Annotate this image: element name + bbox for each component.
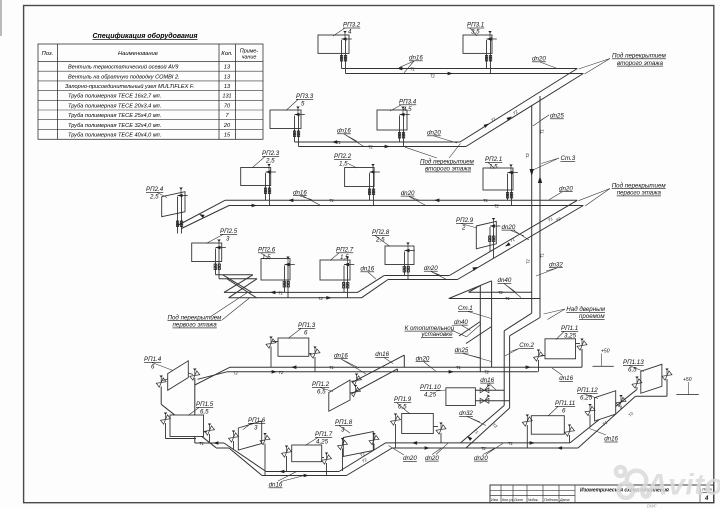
leader RP2.1: [488, 163, 495, 169]
leader RP3.3: [286, 100, 298, 111]
svg-text:Т2: Т2: [279, 370, 285, 375]
svg-text:Ст.2: Ст.2: [519, 342, 534, 349]
svg-text:второго этажа: второго этажа: [425, 166, 472, 173]
wire T2 floor3 top run: [346, 73, 584, 75]
wire T2 row3 left diagonal: [182, 206, 230, 229]
svg-text:2,5: 2,5: [375, 237, 385, 244]
radiator RP3.3: [270, 107, 305, 147]
svg-text:dn16: dn16: [604, 436, 618, 443]
svg-text:Лист: Лист: [513, 498, 523, 502]
elevation mark +50 west: [593, 349, 614, 367]
wire T1 east ascend diagonal: [570, 389, 637, 443]
svg-text:dn16: dn16: [375, 351, 389, 358]
leader RP2.4: [157, 193, 167, 198]
wire T1 floor2 lower run: [224, 291, 358, 293]
wire T2 floor3 second run: [299, 146, 467, 148]
svg-text:Кол.: Кол.: [221, 51, 232, 57]
leader dn16 RP1.2 return: [384, 358, 393, 364]
svg-text:Под перекрытием: Под перекрытием: [612, 182, 667, 189]
arrow T2 bottom run: [304, 474, 309, 478]
svg-text:РП1.13: РП1.13: [623, 359, 644, 366]
svg-text:dn32: dn32: [459, 410, 473, 417]
svg-text:3,25: 3,25: [564, 333, 577, 340]
svg-text:Т1: Т1: [199, 441, 204, 446]
svg-text:Дата: Дата: [559, 498, 569, 502]
wire T1 floor3 second run: [295, 141, 461, 143]
leader RP1.13: [629, 366, 644, 372]
radiator RP1.1: [533, 339, 587, 372]
svg-text:РП2.5: РП2.5: [220, 228, 238, 235]
wire row5 left vertical to row6: [194, 378, 196, 443]
svg-text:РП3.1: РП3.1: [467, 22, 484, 29]
wire triangle T2 branch diagonal: [469, 286, 481, 293]
svg-text:Т2: Т2: [498, 290, 504, 295]
svg-text:Т1: Т1: [336, 140, 341, 145]
wire T2 dn40 link run: [469, 291, 532, 293]
svg-text:первого этажа: первого этажа: [617, 190, 662, 197]
wire T1 floor2 upper run: [225, 199, 577, 201]
svg-text:чание: чание: [242, 55, 257, 61]
radiator RP2.2: [345, 164, 380, 206]
svg-text:dn16: dn16: [480, 377, 494, 384]
svg-text:dn25: dn25: [455, 347, 469, 354]
radiator RP1.9: [390, 414, 446, 449]
leader RP2.5: [206, 235, 223, 244]
leader RP1.8: [339, 426, 350, 434]
svg-text:6,5: 6,5: [200, 409, 209, 416]
svg-text:dn40: dn40: [498, 277, 512, 284]
arrow T2 row6 east: [425, 446, 430, 450]
leader RP2.3: [252, 157, 265, 169]
wire T2 floor1 lower west run: [216, 447, 229, 449]
leader RP1.7: [305, 438, 318, 446]
wire RP1.4 left connection vertical: [160, 387, 162, 405]
svg-text:РП1.8: РП1.8: [335, 419, 353, 426]
svg-text:4,5: 4,5: [403, 106, 412, 113]
svg-text:2,5: 2,5: [149, 194, 159, 201]
wire T1 RP2.8 run: [384, 275, 449, 277]
svg-text:установке: установке: [420, 331, 453, 338]
leader dn16 row1: [399, 61, 414, 73]
radiator RP2.7: [320, 257, 354, 298]
arrow up riser St3 T1: [538, 176, 542, 183]
svg-text:РП1.3: РП1.3: [298, 322, 316, 329]
svg-text:Спецификация оборудования: Спецификация оборудования: [92, 32, 197, 40]
arrow T1 row1: [397, 67, 402, 71]
svg-text:РП3.3: РП3.3: [296, 93, 314, 100]
svg-text:Т2: Т2: [494, 203, 500, 208]
svg-text:РП1.4: РП1.4: [144, 356, 162, 363]
leader St1: [468, 312, 491, 319]
svg-text:dn20: dn20: [401, 190, 415, 197]
svg-text:РП2.2: РП2.2: [334, 153, 352, 160]
radiator RP2.8: [385, 243, 415, 280]
leader dn20 row2: [434, 136, 457, 143]
svg-text:Подпись: Подпись: [544, 498, 558, 502]
svg-text:3: 3: [226, 236, 230, 243]
svg-text:№док.: №док.: [528, 498, 539, 502]
svg-text:1,5: 1,5: [262, 254, 271, 261]
svg-text:Т2: Т2: [368, 145, 374, 150]
leader dn16 RP1.10: [489, 384, 496, 390]
wire T2 RP2.8 run left drop: [362, 280, 389, 298]
arrow T1 row4: [270, 291, 275, 295]
svg-text:3: 3: [254, 425, 258, 432]
wire RP1.2 supply stub vertical: [403, 355, 405, 367]
svg-text:dn20: dn20: [474, 455, 488, 462]
riser St3 T2: [531, 105, 533, 313]
radiator RP1.13 tilted: [632, 364, 672, 393]
leader note door: [544, 309, 566, 320]
leader note floor2 #2: [405, 144, 461, 159]
svg-text:Т1: Т1: [505, 296, 510, 301]
svg-text:dn16: dn16: [360, 266, 374, 273]
svg-text:dn20: dn20: [416, 355, 430, 362]
wire T1 ascend diagonal from bottom run: [339, 443, 386, 472]
wire T2 diagonal row3 to RP2.8 run: [458, 206, 584, 280]
svg-text:РП1.7: РП1.7: [315, 431, 333, 438]
svg-text:15: 15: [224, 133, 231, 139]
wire T1 bottom run: [266, 471, 339, 473]
arrow T1 row6 east right: [530, 441, 535, 445]
svg-text:dn20: dn20: [424, 265, 438, 272]
wire T2 diagonal row2 to row1: [466, 74, 583, 147]
svg-text:1,5: 1,5: [340, 254, 349, 261]
svg-text:Т1: Т1: [540, 129, 545, 134]
leader dn20 row3 mid: [409, 197, 425, 206]
arrow T2 row4: [326, 296, 331, 300]
svg-text:РП1.6: РП1.6: [248, 417, 266, 424]
svg-text:РП2.7: РП2.7: [336, 247, 354, 254]
svg-text:Т1: Т1: [329, 365, 334, 370]
arrow T1 row6 west: [213, 441, 218, 445]
svg-text:Труба полимерная ТЕСЕ 25х4,: Труба полимерная ТЕСЕ 25х4,0 мп.: [68, 113, 161, 119]
radiator RP2.1: [483, 165, 518, 206]
svg-text:Т2: Т2: [233, 370, 239, 375]
svg-text:Труба полимерная ТЕСЕ 32х4,: Труба полимерная ТЕСЕ 32х4,0 мп.: [68, 123, 161, 129]
arrow T2 row1: [448, 72, 453, 76]
wire T1 floor1 upper run: [230, 366, 582, 368]
svg-text:Т1: Т1: [540, 253, 545, 258]
svg-text:dn25: dn25: [550, 113, 564, 120]
leader RP3.2: [333, 28, 345, 36]
svg-text:dn20: dn20: [559, 185, 573, 192]
wire T1 floor1 lower east run: [386, 442, 571, 444]
svg-text:6,5: 6,5: [628, 367, 637, 374]
arrow T1 row2: [332, 140, 337, 144]
svg-text:Т2: Т2: [318, 296, 324, 301]
wire RP1.4 left connection diagonal: [161, 404, 216, 447]
svg-text:Труба полимерная ТЕСЕ 40х4,: Труба полимерная ТЕСЕ 40х4,0 мп.: [68, 133, 161, 139]
arrow diag RP2.8 T2 up: [472, 265, 478, 270]
svg-text:Т1: Т1: [483, 198, 488, 203]
leader dn16 row3: [300, 196, 320, 205]
leader RP1.3: [288, 329, 301, 339]
riser St2 T1: [509, 336, 511, 408]
wire T2 RP2.8 run: [388, 279, 458, 281]
radiator RP1.10: [446, 382, 493, 408]
svg-text:первого этажа: первого этажа: [173, 322, 218, 329]
radiator RP1.3: [266, 337, 320, 372]
svg-text:РП2.9: РП2.9: [456, 217, 474, 224]
leader RP1.5: [188, 408, 199, 416]
svg-text:dn16: dn16: [293, 189, 307, 196]
svg-text:Над дверным: Над дверным: [566, 306, 605, 313]
leader dn16 RP1.1: [552, 368, 562, 375]
svg-text:2,5: 2,5: [265, 158, 275, 165]
arrow T1 bottom run: [279, 470, 284, 474]
svg-text:РП2.4: РП2.4: [146, 186, 164, 193]
svg-text:РП2.1: РП2.1: [485, 156, 502, 163]
riser St3 T1: [539, 96, 541, 318]
wire T1 floor1 lower west run: [195, 442, 224, 444]
wire T2 descend diagonal to bottom run: [229, 448, 262, 476]
radiator RP1.8 tilted: [337, 432, 379, 472]
radiator RP2.6: [261, 257, 295, 298]
svg-text:Под перекрытием: Под перекрытием: [168, 314, 223, 321]
svg-text:Ст.3: Ст.3: [561, 155, 576, 162]
svg-text:dn20: dn20: [425, 455, 439, 462]
svg-text:5: 5: [301, 101, 305, 108]
leader dn40 heating unit: [462, 326, 471, 331]
wire T1 RP2.8 run left drop: [358, 276, 385, 293]
svg-text:РП3.4: РП3.4: [399, 99, 417, 106]
wire T2 floor2 lower run: [229, 297, 362, 299]
svg-text:Под перекрытием: Под перекрытием: [612, 53, 667, 60]
leader note floor2 #1: [579, 59, 611, 75]
svg-text:РП2.6: РП2.6: [258, 247, 276, 254]
leader RP1.9: [397, 403, 410, 414]
svg-text:13: 13: [224, 74, 231, 80]
svg-text:Вентиль термостатический осе: Вентиль термостатический осевой AV9: [68, 64, 178, 71]
svg-text:второго этажа: второго этажа: [617, 60, 664, 67]
svg-text:РП3.2: РП3.2: [343, 22, 361, 29]
wire break cross line 2: [227, 279, 257, 298]
svg-text:Кол.уч: Кол.уч: [502, 498, 513, 502]
svg-text:dn16: dn16: [334, 352, 348, 359]
leader St3: [533, 158, 559, 170]
arrow down riser St3 T2: [530, 169, 534, 176]
svg-text:Т2: Т2: [484, 370, 490, 375]
leader RP1.6: [243, 424, 251, 430]
svg-text:+50: +50: [683, 377, 692, 383]
svg-text:РП1.9: РП1.9: [394, 396, 412, 403]
radiator RP2.5: [192, 240, 226, 279]
wire jog above door T1: [510, 318, 540, 336]
radiator RP3.1: [463, 31, 497, 74]
arrow T2 row2: [385, 145, 390, 149]
arrow T1 row3 mid: [434, 199, 439, 203]
leader dn40 triangle: [504, 284, 521, 298]
svg-text:4,25: 4,25: [316, 439, 329, 446]
leader dn20 row5 west: [424, 362, 436, 371]
wire T1 row3 left diagonal: [178, 200, 226, 225]
leader dn16 row2: [344, 134, 363, 146]
radiator RP1.6 tilted: [228, 421, 270, 476]
radiator RP3.2: [318, 31, 352, 74]
svg-text:dn40: dn40: [454, 319, 468, 326]
radiator RP1.5: [160, 413, 214, 444]
svg-text:dn16: dn16: [269, 482, 283, 489]
wire T2 horizontal under RP1.13: [636, 395, 668, 397]
leader RP1.4: [152, 363, 173, 371]
svg-text:Т1: Т1: [410, 66, 415, 71]
leader dn20 RP2.8 run: [431, 272, 446, 280]
leader RP2.8: [375, 236, 390, 247]
svg-text:Т1: Т1: [508, 441, 513, 446]
riser St2 T2: [503, 331, 505, 406]
radiator RP1.4 tilted: [156, 361, 200, 391]
arrow T1 row5 east: [526, 365, 531, 369]
svg-text:Avito: Avito: [645, 469, 720, 502]
wire dn40 branch 2 to heating unit: [466, 327, 492, 344]
radiator RP2.9 tilted: [476, 218, 500, 258]
wire RP1.1 right return vertical: [581, 349, 583, 368]
svg-text:Вентиль на обратную подводк: Вентиль на обратную подводку COMBI 2.: [68, 74, 180, 80]
svg-text:Т2: Т2: [481, 446, 487, 451]
arrow up diag T1 row2-row1: [483, 122, 489, 128]
riser St1 right: [491, 281, 493, 367]
svg-text:Т1: Т1: [329, 198, 334, 203]
wire RP2.5 branch run upper: [216, 274, 253, 276]
leader K otop V-line: [452, 324, 482, 337]
svg-text:6: 6: [304, 330, 308, 337]
leader dn16 RP2.8 run: [368, 272, 376, 279]
leader RP1.1: [556, 332, 564, 340]
riser St1 left: [479, 286, 481, 372]
svg-text:4,25: 4,25: [424, 392, 437, 399]
leader RP1.12: [583, 394, 598, 399]
leader dn16 bottom run: [278, 472, 303, 482]
svg-text:Под перекрытием: Под перекрытием: [420, 158, 475, 165]
arrow dn32 diag down: [466, 435, 472, 441]
svg-text:РП2.3: РП2.3: [262, 150, 280, 157]
radiator RP3.4: [377, 107, 410, 147]
wire dn32 diagonal T1: [466, 408, 510, 448]
svg-text:Т1: Т1: [456, 365, 461, 370]
svg-text:РП1.2: РП1.2: [312, 381, 330, 388]
svg-text:dn32: dn32: [549, 261, 563, 268]
svg-text:6,5: 6,5: [398, 404, 407, 411]
svg-text:6,25: 6,25: [580, 395, 593, 402]
svg-text:dn20: dn20: [427, 130, 441, 137]
svg-text:Запорно-присоединительный узе: Запорно-присоединительный узел MULTIFLEX…: [65, 83, 194, 90]
wire break cross line 4: [229, 279, 258, 298]
leader dn25 St1: [463, 354, 491, 362]
wire RP1.13 right drop: [666, 379, 668, 396]
radiator RP1.2 tilted: [329, 374, 362, 412]
svg-text:dn16: dn16: [559, 375, 573, 382]
svg-text:РП2.8: РП2.8: [372, 229, 390, 236]
svg-text:Изм.: Изм.: [491, 498, 499, 502]
wire T2 floor1 lower east run: [392, 447, 578, 449]
arrow T1 row6 east left: [412, 441, 417, 445]
svg-text:DWF: DWF: [647, 504, 657, 509]
svg-text:131: 131: [222, 94, 231, 100]
svg-text:Т2: Т2: [526, 258, 531, 264]
leader RP2.6: [261, 253, 270, 259]
leader RP2.2: [348, 164, 357, 169]
svg-text:13: 13: [224, 84, 231, 90]
wire T1 row5 left diagonal: [195, 367, 230, 385]
leader note floor1 #2: [210, 293, 250, 320]
svg-text:13: 13: [224, 65, 231, 71]
leader dn25 riser: [533, 115, 549, 126]
svg-text:dn20: dn20: [532, 56, 546, 63]
leader note floor1 #1: [579, 189, 611, 207]
svg-text:dn20: dn20: [502, 224, 516, 231]
radiator RP2.3: [241, 164, 276, 206]
svg-text:РП1.10: РП1.10: [420, 384, 441, 391]
wire T2 floor1 upper run: [227, 371, 538, 373]
wire RP1.2 return stub vertical: [396, 369, 398, 372]
wire break cross line 1: [223, 275, 252, 293]
leader RP2.7: [330, 253, 339, 261]
svg-text:Труба полимерная ТЕСЕ 20х3,: Труба полимерная ТЕСЕ 20х3,4 мп.: [68, 103, 161, 109]
svg-text:РП1.12: РП1.12: [577, 387, 598, 394]
svg-text:РП1.1: РП1.1: [561, 325, 578, 332]
wire T1 descend diagonal to bottom run: [224, 443, 266, 472]
svg-text:6: 6: [562, 408, 566, 415]
arrow T2 row3: [252, 204, 257, 208]
arrow T2 row6 east right: [557, 446, 562, 450]
svg-text:4: 4: [348, 29, 352, 36]
svg-text:РП1.5: РП1.5: [196, 401, 214, 408]
leader dn20 bottom 1: [389, 446, 405, 456]
wire RP1.2 supply diagonal dn16: [352, 355, 404, 382]
svg-text:6: 6: [151, 364, 155, 371]
leader RP1.2: [320, 388, 333, 392]
arrow T1 row5: [291, 365, 296, 369]
leader dn32 diag: [467, 417, 486, 426]
leader dn20 RP2.9: [511, 231, 529, 241]
leader dn16 RP1.2 supply: [341, 359, 366, 374]
wire break cross line 3: [224, 275, 253, 293]
wire triangle T1 branch diagonal: [449, 281, 492, 299]
svg-text:Ст.1: Ст.1: [458, 305, 473, 312]
leader RP2.9: [461, 224, 477, 229]
arrow T2 row5 east: [449, 370, 454, 374]
wire RP2.5 branch run lower: [219, 278, 257, 280]
svg-text:проемом: проемом: [579, 313, 605, 320]
elevation mark +50 east: [676, 377, 698, 395]
arrow row3 left diagonal down: [198, 212, 204, 218]
svg-text:Поз.: Поз.: [42, 51, 54, 57]
wire jog above door T2: [504, 313, 532, 331]
arrow diag-a T1 down: [504, 242, 510, 248]
svg-text:+50: +50: [601, 349, 610, 355]
radiator RP1.11: [522, 415, 574, 449]
radiator RP1.12 tilted: [585, 391, 626, 428]
svg-text:20: 20: [223, 123, 231, 129]
table grid: [38, 44, 263, 139]
wire T1 dn40 link run: [449, 298, 540, 300]
svg-text:Наименование: Наименование: [118, 51, 159, 57]
wire RP1.10 upper stub: [475, 389, 504, 391]
wire T2 ascend diagonal from bottom run: [347, 448, 393, 476]
leader St2: [505, 349, 519, 357]
radiator RP2.4 tilted: [162, 188, 188, 234]
wire T2 floor2 upper run: [229, 205, 583, 207]
svg-text:6,5: 6,5: [317, 389, 326, 396]
leader RP1.10: [436, 390, 446, 391]
wire T2 row5 left diagonal: [198, 372, 228, 380]
radiator RP1.7: [281, 445, 331, 476]
svg-text:70: 70: [224, 103, 231, 109]
wire T2 bottom run: [262, 475, 347, 477]
wire T1 diagonal row3 to RP2.8 run: [449, 200, 577, 275]
leader dn20 row1: [540, 62, 556, 68]
